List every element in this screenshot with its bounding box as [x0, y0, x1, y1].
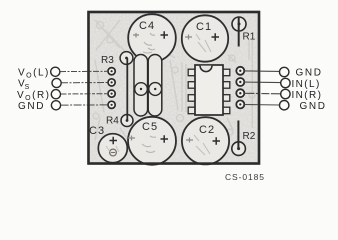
pad in left stadium [135, 83, 148, 96]
svg-text:C1: C1 [196, 21, 212, 33]
svg-text:GND: GND [300, 101, 327, 112]
wire pad to IN(R) row3 [244, 92, 280, 95]
terminal Vo(L) [51, 67, 60, 76]
capacitor C7 body (right stadium) [148, 55, 162, 117]
cap interior speckle C1 [196, 34, 211, 52]
pad row4 left [108, 101, 115, 108]
figure code CS-0185 [225, 172, 265, 182]
svg-text:GND: GND [296, 68, 323, 79]
pin 2 [188, 82, 195, 89]
board outline (PCB) [89, 12, 260, 164]
terminal GND-right row4 [280, 101, 289, 110]
label GND right row4 [300, 101, 327, 112]
svg-text:C3: C3 [89, 125, 105, 137]
label Vo(L) [18, 67, 50, 79]
svg-text:R3: R3 [101, 55, 114, 66]
wire Vo(L) to pad [60, 70, 108, 72]
svg-text:IN(R): IN(R) [292, 90, 323, 101]
right pads column [236, 67, 244, 109]
svg-text:R2: R2 [243, 131, 256, 142]
pin 4 [188, 107, 195, 114]
capacitor C1 [182, 15, 228, 61]
svg-text:C2: C2 [199, 124, 215, 136]
terminal IN(R) [281, 89, 290, 98]
ghost trace texture [93, 20, 255, 140]
op-amp IC U1 (8-pin DIP) [188, 65, 230, 115]
resistor R4 [106, 115, 133, 127]
terminal Vo(R) [51, 90, 60, 99]
svg-text:C4: C4 [139, 20, 155, 32]
svg-text:R4: R4 [106, 116, 119, 127]
pad in right stadium [149, 83, 162, 96]
wire Vo(R) to pad [61, 93, 108, 95]
terminal Vs [52, 78, 61, 87]
pin 8 [223, 69, 230, 76]
capacitor C4 [128, 14, 176, 62]
svg-text:CS-0185: CS-0185 [225, 172, 265, 182]
pin 1 [188, 69, 195, 76]
terminal GND-left [51, 101, 60, 110]
pin 5 [223, 107, 230, 114]
pin 6 [223, 95, 230, 102]
pin 3 [188, 95, 195, 102]
label GND left [18, 101, 45, 112]
cap interior speckle C4 [143, 33, 155, 53]
label Vo(R) [17, 90, 51, 102]
left pads column [108, 68, 115, 109]
cap interior speckle C2 [194, 135, 210, 155]
label GND right row1 [296, 68, 323, 79]
wire pad to GND-right row4 [244, 104, 279, 107]
cap interior speckle C3 [106, 146, 119, 153]
terminal IN(L) [281, 78, 290, 87]
svg-text:GND: GND [18, 101, 45, 112]
terminal GND-right row1 [280, 67, 289, 76]
pin-1 notch [200, 66, 212, 72]
resistor R3 [101, 52, 133, 121]
capacitor C3 [89, 125, 127, 163]
cap interior speckle C5 [142, 136, 156, 153]
wire GND-left to pad [61, 104, 108, 106]
pin 7 [223, 82, 230, 89]
svg-text:C5: C5 [142, 121, 158, 133]
svg-text:IN(L): IN(L) [292, 79, 321, 90]
wire Vs to pad [61, 82, 108, 84]
resistor R2 [232, 121, 256, 156]
capacitor C5 [128, 117, 176, 165]
svg-text:R1: R1 [243, 32, 256, 43]
label Vs [18, 79, 30, 91]
IC body [195, 65, 223, 115]
wire pad to IN(L) row2 [244, 81, 280, 84]
pad row3 left [108, 90, 115, 97]
resistor R1 [232, 17, 256, 47]
pad row3 right [236, 89, 244, 97]
capacitor C6 body (left stadium) [134, 55, 148, 117]
board outline overlay [89, 12, 260, 164]
wire pad to GND-right row1 [244, 70, 279, 73]
capacitor C2 [182, 117, 229, 164]
pad row4 right [236, 100, 244, 108]
pad row1 right [236, 67, 244, 75]
pad row1 left [108, 68, 115, 75]
pad row2 right [236, 78, 244, 86]
label IN(L) [292, 79, 321, 90]
label IN(R) [292, 90, 323, 101]
pad row2 left [108, 79, 115, 86]
